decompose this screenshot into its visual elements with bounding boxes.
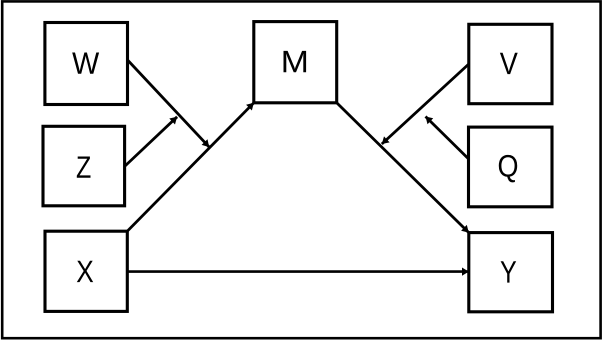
wire Z to W path bbox=[125, 117, 178, 167]
node W bbox=[45, 23, 128, 105]
node X bbox=[45, 231, 127, 311]
node Z bbox=[43, 126, 125, 206]
node V bbox=[469, 24, 552, 103]
wire M to Y bbox=[337, 103, 469, 233]
wire W to X-M path bbox=[128, 61, 209, 148]
node Q bbox=[469, 127, 553, 207]
wire V to M-Y path bbox=[382, 64, 469, 144]
node Y bbox=[469, 233, 553, 312]
wire X to Y bbox=[127, 268, 469, 276]
node M bbox=[254, 22, 337, 103]
wire Q to V path bbox=[426, 117, 468, 159]
wire X to M bbox=[127, 103, 254, 231]
